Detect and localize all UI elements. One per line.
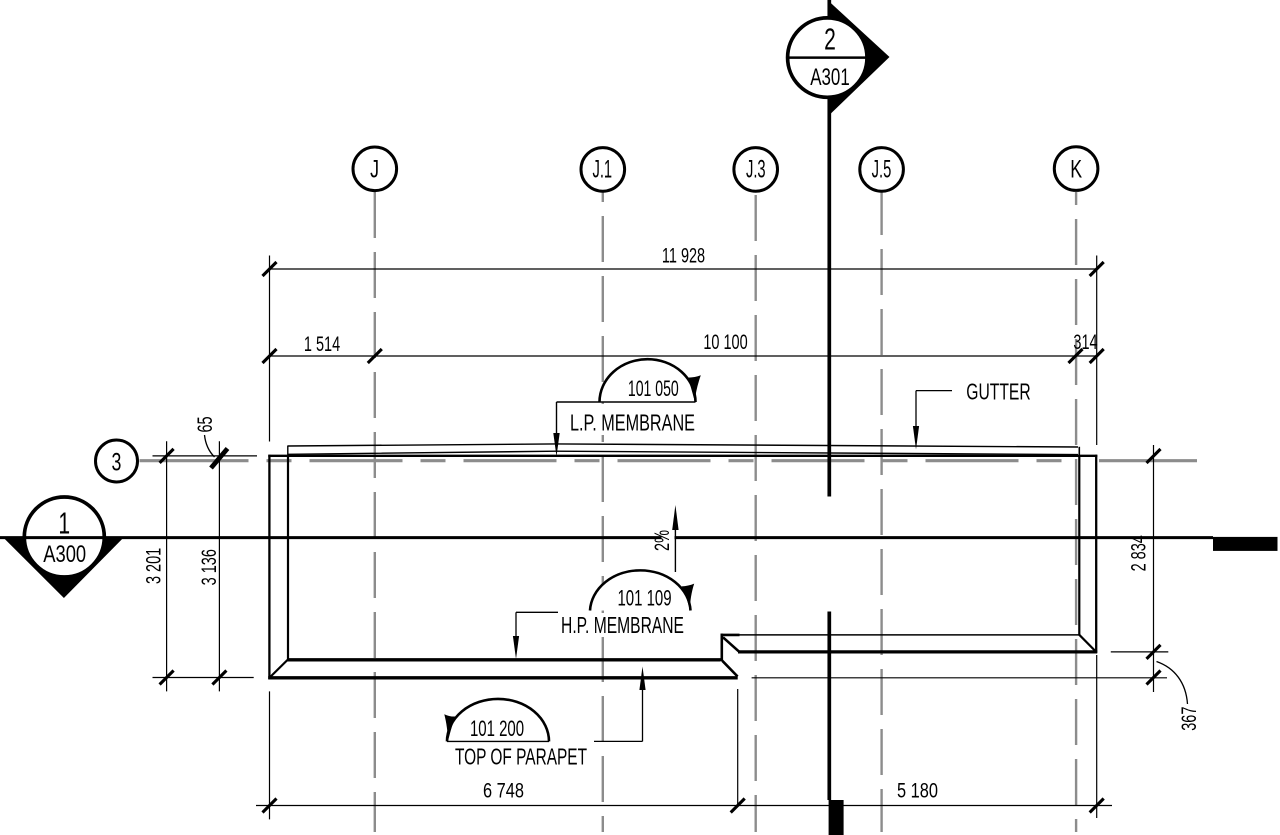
- tick dim2 at K: [1069, 349, 1083, 363]
- tick 367 bottom: [1147, 671, 1161, 685]
- grid line 3 (horizontal, dashed gray) first run: [140, 459, 249, 462]
- section line vertical lower segment: [827, 612, 831, 801]
- tick 3136 top (merged double tick with 65): [211, 449, 228, 469]
- level symbol 101 200 leader horizontal: [594, 740, 643, 742]
- grid line 3 dashed middle: [267, 459, 1079, 462]
- parapet step mitre diagonal lower: [722, 661, 737, 677]
- left horizontal extension bottom y677.5: [153, 677, 254, 679]
- gutter left end cap: [287, 446, 289, 456]
- grid line J.1: [602, 192, 604, 832]
- parapet step vertical: [720, 634, 723, 662]
- label GUTTER arrow: [913, 426, 919, 450]
- left horizontal extension top y455.9: [153, 455, 258, 457]
- parapet bottom-right outer edge: [738, 650, 1097, 653]
- building right wall outer: [1095, 455, 1097, 653]
- extension line right x1096 top: [1096, 256, 1098, 446]
- level symbol 101 109 dome: [590, 570, 691, 610]
- level symbol 101 109 leader horizontal: [516, 611, 558, 613]
- tick 2834 bottom: [1147, 645, 1161, 659]
- section marker A301 circle: [788, 18, 867, 97]
- svg-text:314: 314: [1073, 330, 1097, 353]
- grid line 3 solid right run: [1099, 459, 1197, 462]
- label L.P. MEMBRANE background: [564, 404, 701, 435]
- svg-text:5 180: 5 180: [897, 779, 938, 802]
- level symbol 101 109 arrow: [513, 636, 519, 659]
- right vertical dim line 2834/367 at x1153.5: [1153, 445, 1155, 692]
- svg-text:J.5: J.5: [872, 155, 892, 183]
- gutter top line: [288, 444, 1078, 447]
- svg-text:A301: A301: [810, 64, 849, 91]
- svg-text:101 109: 101 109: [617, 586, 671, 611]
- grid bubble J: [353, 147, 397, 191]
- extension line bottom x737: [737, 689, 739, 806]
- leader arc for 65: [205, 435, 215, 457]
- level symbol 101 200 baseline: [447, 740, 549, 742]
- svg-text:H.P. MEMBRANE: H.P. MEMBRANE: [561, 613, 684, 639]
- section line vertical upper segment: [827, 99, 831, 497]
- dimension line 11928: [270, 268, 1097, 270]
- left vertical dim line 3136 at x219.4: [218, 441, 220, 691]
- corner mitre bottom-right: [1079, 634, 1096, 651]
- svg-text:3 136: 3 136: [197, 549, 220, 585]
- level symbol 101 109 leader vertical: [515, 612, 517, 638]
- dimension line 1514/10100/314: [270, 355, 1097, 357]
- extension line bottom right x1096: [1096, 655, 1098, 818]
- level symbol 101 200 dome: [447, 699, 549, 742]
- svg-text:J.1: J.1: [592, 155, 612, 183]
- svg-text:TOP OF PARAPET: TOP OF PARAPET: [455, 744, 587, 770]
- level symbol 101 050 leader vertical: [556, 402, 558, 436]
- level symbol 101 109 dome fill: [590, 570, 691, 610]
- tick 3201 bottom: [160, 671, 174, 685]
- bottom dimension line 6748/5180: [256, 805, 1112, 807]
- svg-text:3: 3: [112, 447, 122, 476]
- right horizontal extension y651.9: [1111, 651, 1169, 653]
- svg-text:65: 65: [193, 416, 216, 432]
- building right wall inner: [1078, 456, 1080, 635]
- tick dim2 at J: [368, 349, 382, 363]
- label TOP OF PARAPET background: [450, 745, 592, 767]
- svg-text:1 514: 1 514: [304, 332, 340, 355]
- extension line bottom left x269: [269, 691, 271, 819]
- grid line J.5: [880, 192, 882, 832]
- extension line left x269 top: [269, 256, 271, 442]
- slope arrow 2% head: [672, 505, 678, 530]
- svg-text:2 834: 2 834: [1127, 535, 1150, 571]
- tick 2834 top: [1147, 449, 1161, 463]
- svg-text:101 050: 101 050: [628, 376, 679, 401]
- section line vertical top segment: [827, 0, 831, 17]
- svg-text:GUTTER: GUTTER: [966, 380, 1030, 406]
- svg-text:6 748: 6 748: [483, 779, 524, 802]
- label GUTTER leader horizontal: [916, 390, 952, 392]
- tick 3136 bottom: [212, 671, 226, 685]
- tick 3201 top: [160, 449, 174, 463]
- section marker A301 divider: [786, 56, 869, 59]
- section marker A300 circle: [24, 497, 104, 577]
- tick 11928 left: [263, 262, 277, 276]
- tick dim2 at x269: [263, 349, 277, 363]
- label GUTTER leader vertical: [915, 391, 917, 428]
- section line horizontal right part: [675, 536, 1214, 539]
- svg-text:11 928: 11 928: [662, 244, 705, 267]
- corner mitre bottom-left: [270, 660, 288, 678]
- tick bottom x737: [731, 799, 745, 813]
- grid bubble J.5: [860, 148, 904, 192]
- svg-text:K: K: [1070, 154, 1082, 183]
- level symbol 101 050 arrow: [553, 433, 559, 457]
- level symbol 101 200 arrow (up): [639, 667, 645, 691]
- section line horizontal left part: [0, 536, 662, 539]
- svg-text:2: 2: [824, 21, 836, 56]
- tick bottom right: [1090, 799, 1104, 813]
- grid line J.3: [755, 192, 757, 832]
- level symbol 101 200 flag: [444, 714, 456, 740]
- grid bubble 3: [96, 440, 138, 482]
- section line bottom end bar: [829, 800, 844, 835]
- tick 11928 right: [1090, 262, 1104, 276]
- gutter sole line: [288, 451, 1078, 454]
- section marker A301 triangle: [828, 0, 890, 117]
- level symbol 101 050 dome fill: [600, 359, 696, 402]
- grid line J (vertical, dashed gray): [374, 192, 376, 832]
- parapet bottom-right inner edge (thin): [721, 634, 1080, 636]
- svg-text:J: J: [370, 154, 379, 183]
- leader arc for 367: [1157, 662, 1188, 705]
- grid bubble J.1: [581, 148, 625, 192]
- svg-text:367: 367: [1177, 707, 1200, 731]
- building outline: top edge: [268, 455, 1097, 457]
- slope arrow 2% shaft: [674, 528, 676, 572]
- tick dim2 right: [1090, 349, 1104, 363]
- svg-text:3 201: 3 201: [142, 548, 165, 584]
- section line right end bar: [1213, 537, 1278, 551]
- left vertical dim line 3201 at x166.6: [166, 441, 168, 691]
- parapet step top cap: [721, 634, 740, 637]
- level symbol 101 050 dome: [600, 359, 696, 402]
- label GUTTER background: [962, 379, 1035, 402]
- grid bubble K: [1054, 147, 1098, 191]
- parapet step mitre diagonal upper: [723, 637, 739, 651]
- svg-text:10 100: 10 100: [703, 330, 747, 353]
- building left wall inner: [287, 456, 289, 659]
- level symbol 101 200 dome fill: [447, 699, 549, 742]
- building left wall outer: [268, 455, 270, 679]
- parapet bottom-left inner edge: [287, 658, 721, 661]
- label H.P. MEMBRANE background: [555, 613, 691, 637]
- level symbol 101 109 flag: [682, 584, 695, 610]
- gutter right end cap: [1078, 447, 1080, 456]
- level symbol 101 050 flag: [687, 375, 701, 401]
- svg-text:J.3: J.3: [746, 155, 766, 183]
- tick bottom left: [263, 799, 277, 813]
- svg-text:1: 1: [58, 505, 70, 540]
- svg-text:2%: 2%: [650, 530, 673, 551]
- svg-text:A300: A300: [43, 539, 86, 567]
- grid bubble J.3: [734, 148, 778, 192]
- grid line K: [1075, 192, 1077, 832]
- right horizontal extension y677.5: [752, 677, 1167, 679]
- level symbol 101 200 leader vertical: [642, 688, 644, 741]
- svg-text:101 200: 101 200: [470, 716, 524, 741]
- parapet bottom-left outer edge: [268, 676, 738, 679]
- level symbol 101 050 baseline: [557, 401, 696, 403]
- section marker A300 triangle: [4, 538, 123, 598]
- svg-text:L.P. MEMBRANE: L.P. MEMBRANE: [570, 411, 695, 437]
